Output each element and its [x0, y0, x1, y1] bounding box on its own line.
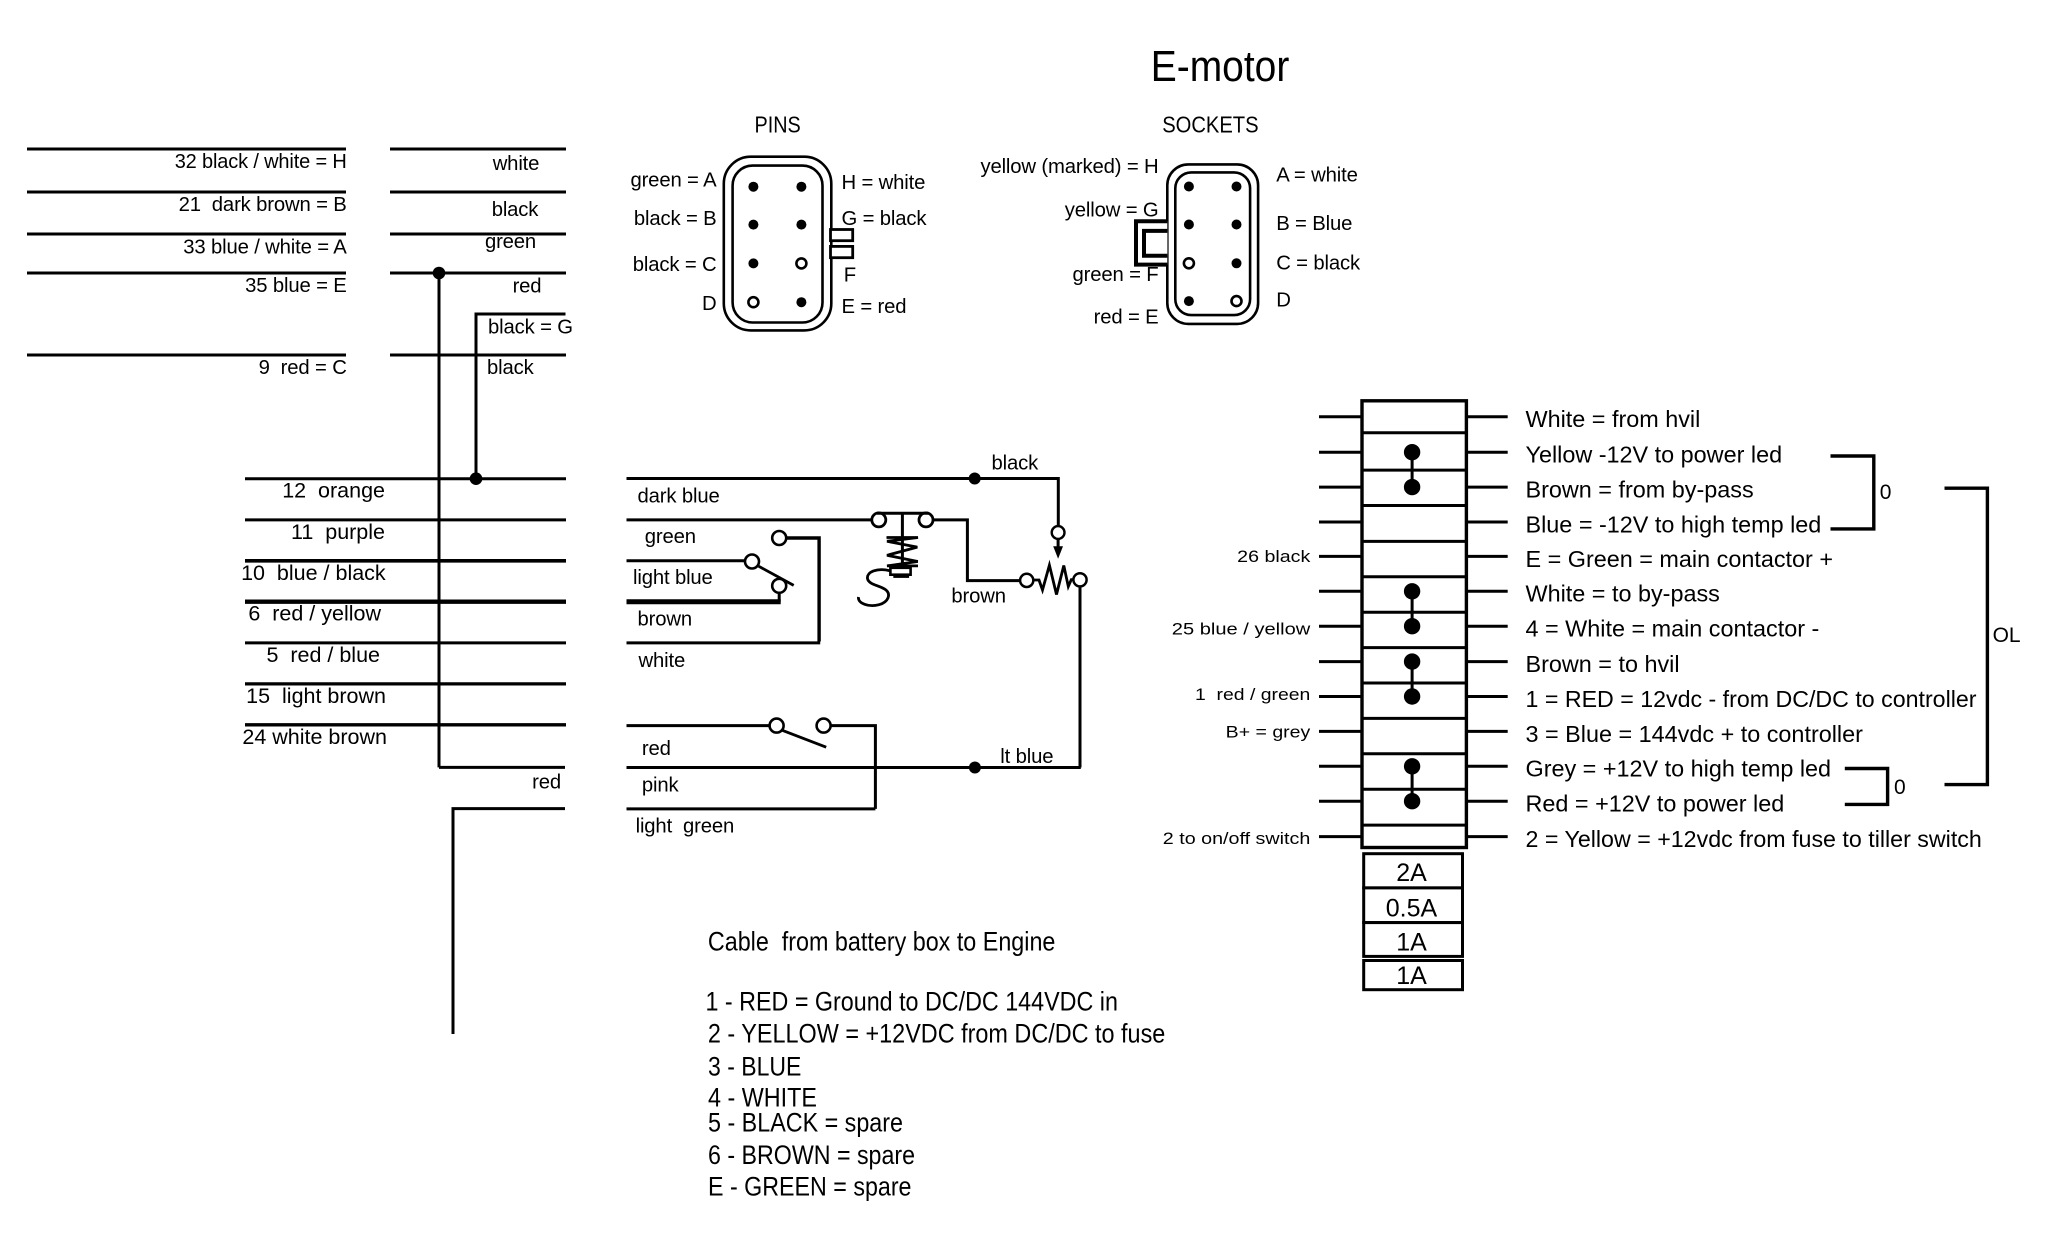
switch S2 lever	[782, 730, 827, 747]
svg-text:PINS: PINS	[755, 112, 801, 138]
svg-text:brown: brown	[638, 608, 693, 630]
jumper dots rows 8-9	[1411, 662, 1414, 697]
svg-text:21 dark brown = B: 21 dark brown = B	[179, 194, 347, 216]
wire left stub row 10	[1319, 730, 1362, 733]
terminal block separator 12	[1362, 824, 1466, 827]
svg-text:black: black	[487, 357, 535, 379]
svg-text:white: white	[638, 650, 686, 672]
wire black = G (elbow)	[476, 314, 566, 479]
wire right stub row 3	[1466, 486, 1507, 489]
svg-text:5 red / blue: 5 red / blue	[266, 643, 380, 667]
wire red (second column)	[390, 272, 566, 275]
pin D (open)	[748, 297, 758, 307]
wire black (second column bottom)	[390, 354, 566, 357]
svg-text:light blue: light blue	[633, 567, 713, 589]
svg-text:White = from hvil: White = from hvil	[1526, 406, 1701, 432]
wire from S2 right terminal to down elbow	[830, 726, 875, 809]
svg-text:1A: 1A	[1396, 929, 1427, 957]
connector J1 PINS outer shell	[724, 157, 832, 331]
overload resistor right terminal circle	[1073, 573, 1086, 586]
svg-text:C = black: C = black	[1276, 252, 1361, 274]
jumper dots rows 2-3	[1411, 452, 1414, 487]
svg-text:Grey = +12V to high temp led: Grey = +12V to high temp led	[1526, 756, 1832, 782]
svg-text:Yellow -12V to power led: Yellow -12V to power led	[1526, 442, 1783, 468]
svg-text:E = Green = main contactor +: E = Green = main contactor +	[1526, 546, 1834, 572]
wire right stub row 13	[1466, 835, 1507, 838]
wire right stub row 11	[1466, 765, 1507, 768]
svg-text:0: 0	[1880, 481, 1892, 504]
bracket 0 (yellow/blue led pair)	[1831, 456, 1874, 529]
svg-text:red: red	[532, 772, 561, 794]
terminal block separator 4	[1362, 540, 1466, 543]
svg-text:11 purple: 11 purple	[291, 520, 385, 544]
svg-text:black = G: black = G	[488, 317, 573, 339]
terminal block separator 8	[1362, 682, 1466, 685]
connector J1 key tab lower	[831, 246, 853, 257]
terminal block separator 9	[1362, 717, 1466, 720]
wire white (middle)	[627, 641, 821, 644]
connector J2 key notch outer	[1136, 221, 1167, 264]
svg-text:B = Blue: B = Blue	[1276, 213, 1352, 235]
svg-text:3 - BLUE: 3 - BLUE	[708, 1051, 801, 1081]
wire 32 black/white = H (left segment)	[27, 148, 346, 151]
svg-text:OL: OL	[1993, 624, 2021, 647]
svg-text:red: red	[513, 276, 542, 298]
svg-text:dark blue: dark blue	[638, 486, 720, 508]
wire right stub row 8	[1466, 660, 1507, 663]
jumper dots rows 11-12	[1411, 766, 1414, 801]
jumper dots rows 6-7	[1411, 591, 1414, 626]
wire red (middle)	[627, 724, 770, 727]
relay armature cup	[890, 568, 910, 575]
wire left stub row 3	[1319, 486, 1362, 489]
wire dark blue / black (top middle)	[627, 479, 1059, 526]
wire light green	[627, 807, 876, 810]
wire black (second column)	[390, 191, 566, 194]
relay contact right circle	[919, 513, 933, 527]
connector J2 key notch inner	[1144, 231, 1167, 256]
terminal block separator 3	[1362, 504, 1466, 507]
svg-text:2 - YELLOW = +12VDC from DC/DC: 2 - YELLOW = +12VDC from DC/DC to fuse	[708, 1019, 1165, 1049]
svg-text:35 blue = E: 35 blue = E	[245, 275, 347, 297]
svg-text:red = E: red = E	[1094, 306, 1159, 328]
bracket 0 (grey/red led pair)	[1845, 769, 1888, 805]
svg-text:Brown = from by-pass: Brown = from by-pass	[1526, 477, 1754, 503]
svg-text:Cable from battery box to Eng: Cable from battery box to Engine	[708, 927, 1056, 957]
socket A (filled)	[1232, 182, 1242, 192]
svg-text:12 orange: 12 orange	[282, 479, 385, 503]
switch S2 right terminal circle	[817, 719, 831, 733]
svg-text:green: green	[645, 526, 696, 548]
wire light blue	[627, 559, 746, 562]
socket F (open)	[1184, 258, 1194, 268]
relay contact left circle	[872, 513, 886, 527]
svg-text:yellow = G: yellow = G	[1065, 200, 1159, 222]
svg-text:black: black	[492, 199, 540, 221]
wire left stub row 6	[1319, 590, 1362, 593]
wire left stub row 12	[1319, 800, 1362, 803]
socket C (filled)	[1232, 258, 1242, 268]
wire vertical from red junction down to red elbow	[438, 273, 441, 767]
svg-text:A = white: A = white	[1276, 164, 1358, 186]
svg-text:Red = +12V to power led: Red = +12V to power led	[1526, 791, 1785, 817]
svg-text:33 blue / white = A: 33 blue / white = A	[183, 237, 347, 259]
svg-text:1 red / green: 1 red / green	[1195, 685, 1310, 704]
pin A (filled)	[748, 182, 758, 192]
wire red elbow horizontal (lower left)	[439, 766, 565, 769]
junction dot on lt blue wire	[969, 762, 981, 774]
wire 5 red/blue	[245, 641, 566, 644]
svg-text:lt blue: lt blue	[1000, 746, 1053, 768]
svg-text:1A: 1A	[1396, 962, 1427, 990]
svg-text:D: D	[702, 293, 717, 315]
terminal block TB1 body	[1362, 401, 1466, 848]
svg-text:white: white	[492, 153, 540, 175]
terminal block separator 11	[1362, 788, 1466, 791]
terminal circle top of overload wiper arm	[1052, 526, 1065, 539]
socket E (filled)	[1184, 296, 1194, 306]
pin B (filled)	[748, 220, 758, 230]
connector J1 PINS inner shell	[733, 166, 823, 323]
fuse 2A cell	[1364, 854, 1463, 888]
svg-text:black: black	[992, 453, 1040, 475]
junction dot where black=G wire meets 12 orange wire	[470, 472, 483, 485]
relay hook	[858, 570, 890, 606]
pin H (filled)	[796, 182, 806, 192]
terminal block separator 10	[1362, 752, 1466, 755]
svg-text:F: F	[844, 264, 856, 286]
svg-text:0: 0	[1894, 776, 1906, 799]
svg-text:E-motor: E-motor	[1151, 42, 1290, 91]
fuse 1A cell	[1364, 923, 1463, 957]
relay coil spring	[887, 538, 919, 566]
svg-text:red: red	[642, 738, 671, 760]
wire 12 orange	[245, 477, 566, 480]
wire right stub row 5	[1466, 555, 1507, 558]
relay actuator stem	[901, 512, 904, 566]
svg-text:25 blue / yellow: 25 blue / yellow	[1172, 619, 1312, 638]
terminal block separator 5	[1362, 575, 1466, 578]
svg-text:6 red / yellow: 6 red / yellow	[248, 602, 381, 626]
wire right stub row 7	[1466, 625, 1507, 628]
junction dot on black wire	[969, 473, 981, 485]
switch S1 upper terminal circle (to white wire)	[772, 531, 786, 545]
socket G (filled)	[1184, 220, 1194, 230]
wire stub from S1 lower terminal to brown wire	[778, 593, 781, 602]
svg-text:green: green	[485, 231, 536, 253]
svg-text:Blue = -12V to high temp led: Blue = -12V to high temp led	[1526, 511, 1822, 537]
svg-text:brown: brown	[951, 586, 1006, 608]
svg-text:SOCKETS: SOCKETS	[1162, 112, 1258, 138]
svg-text:2 to on/off switch: 2 to on/off switch	[1163, 829, 1311, 848]
svg-text:26 black: 26 black	[1237, 547, 1311, 566]
svg-text:9 red = C: 9 red = C	[259, 357, 347, 379]
wire right stub row 9	[1466, 695, 1507, 698]
svg-text:yellow (marked) = H: yellow (marked) = H	[980, 156, 1158, 178]
switch S1 lower terminal circle	[772, 579, 786, 593]
wire white (second column)	[390, 148, 566, 151]
wire right stub row 4	[1466, 521, 1507, 524]
fuse 0.5A cell	[1364, 888, 1463, 923]
svg-text:2A: 2A	[1396, 859, 1427, 887]
wire pink / lt blue	[627, 766, 1081, 769]
wire 24 white brown	[245, 723, 566, 726]
svg-text:4 = White = main contactor -: 4 = White = main contactor -	[1526, 616, 1820, 642]
svg-text:D: D	[1276, 289, 1291, 311]
wire 9 red = C (left segment)	[27, 354, 346, 357]
overload resistor left terminal circle	[1020, 574, 1033, 587]
wire brown (middle, thick)	[627, 599, 781, 604]
svg-text:32 black / white = H: 32 black / white = H	[175, 151, 347, 173]
wire left stub row 1	[1319, 415, 1362, 418]
fuse 1A cell	[1364, 961, 1463, 990]
svg-text:White = to by-pass: White = to by-pass	[1526, 581, 1720, 607]
junction dot on red wire	[433, 267, 446, 280]
wire 21 dark brown = B (left segment)	[27, 191, 346, 194]
connector J2 SOCKETS outer shell	[1167, 164, 1258, 324]
svg-text:H = white: H = white	[842, 172, 926, 194]
wire 33 blue/white = A (left segment)	[27, 233, 346, 236]
wire left stub row 7	[1319, 625, 1362, 628]
pin F (open)	[796, 258, 806, 268]
wire left stub row 8	[1319, 660, 1362, 663]
wire right stub row 2	[1466, 451, 1507, 454]
terminal block separator 6	[1362, 611, 1466, 614]
svg-text:24 white brown: 24 white brown	[242, 725, 387, 749]
wire 6 red/yellow	[245, 600, 566, 604]
wire left stub row 11	[1319, 765, 1362, 768]
wire green (middle)	[627, 518, 872, 521]
wire right stub row 12	[1466, 800, 1507, 803]
svg-text:Brown = to hvil: Brown = to hvil	[1526, 651, 1680, 677]
svg-text:10 blue / black: 10 blue / black	[241, 561, 386, 585]
pin C (filled)	[748, 258, 758, 268]
overload resistor zigzag body	[1033, 565, 1073, 594]
wire left stub row 13	[1319, 835, 1362, 838]
svg-text:6 - BROWN = spare: 6 - BROWN = spare	[708, 1140, 915, 1170]
wire green (second column)	[390, 233, 566, 236]
arrow (wiper) pointing down at resistor	[1057, 540, 1060, 548]
svg-text:pink: pink	[642, 775, 680, 797]
svg-text:0.5A: 0.5A	[1386, 894, 1438, 922]
svg-text:2 = Yellow = +12vdc from fuse: 2 = Yellow = +12vdc from fuse to tiller …	[1526, 826, 1982, 852]
switch S2 left terminal circle	[770, 719, 784, 733]
svg-text:1 - RED = Ground to DC/DC 144V: 1 - RED = Ground to DC/DC 144VDC in	[706, 986, 1118, 1016]
wire lower-left elbow down to battery cable	[453, 809, 565, 1034]
svg-text:5 - BLACK = spare: 5 - BLACK = spare	[708, 1108, 903, 1138]
svg-text:green = A: green = A	[630, 169, 717, 191]
svg-text:light green: light green	[636, 816, 735, 838]
connector J1 key tab upper	[831, 230, 853, 241]
relay contact bar	[877, 512, 929, 515]
pin G (filled)	[796, 220, 806, 230]
connector J2 SOCKETS inner shell	[1175, 172, 1250, 315]
wire right stub row 6	[1466, 590, 1507, 593]
svg-text:E - GREEN = spare: E - GREEN = spare	[708, 1172, 912, 1202]
pin E (filled)	[796, 297, 806, 307]
svg-text:G = black: G = black	[842, 208, 928, 230]
terminal block separator 2	[1362, 469, 1466, 472]
socket D (open)	[1232, 296, 1242, 306]
switch S1 terminal circle (light blue)	[745, 555, 759, 569]
wire from resistor right terminal down to lt blue wire	[1079, 586, 1082, 767]
switch S1 lever	[759, 566, 794, 585]
wire 10 blue/black	[245, 559, 566, 563]
wire 11 purple	[245, 518, 566, 521]
svg-text:15 light brown: 15 light brown	[246, 684, 386, 708]
terminal block separator 7	[1362, 646, 1466, 649]
svg-text:green = F: green = F	[1072, 264, 1158, 286]
svg-text:3 = Blue = 144vdc + to control: 3 = Blue = 144vdc + to controller	[1526, 721, 1864, 747]
svg-text:1 = RED = 12vdc - from DC/DC t: 1 = RED = 12vdc - from DC/DC to controll…	[1526, 686, 1977, 712]
wire left stub row 4	[1319, 521, 1362, 524]
svg-text:B+ = grey: B+ = grey	[1226, 722, 1311, 741]
wire right stub row 1	[1466, 415, 1507, 418]
wire left stub row 5	[1319, 555, 1362, 558]
terminal block separator 1	[1362, 431, 1466, 434]
wire right stub row 10	[1466, 730, 1507, 733]
svg-text:black = C: black = C	[633, 254, 717, 276]
socket H (filled)	[1184, 182, 1194, 192]
wire from S1 upper terminal to white wire	[786, 538, 819, 642]
wire brown jog from relay to resistor	[933, 520, 1020, 581]
bracket OL	[1945, 488, 1988, 784]
wire 35 blue = E (left segment)	[27, 272, 346, 275]
svg-text:E = red: E = red	[842, 296, 907, 318]
svg-text:black = B: black = B	[634, 208, 717, 230]
wire left stub row 9	[1319, 695, 1362, 698]
socket B (filled)	[1232, 220, 1242, 230]
wire left stub row 2	[1319, 451, 1362, 454]
wire 15 light brown	[245, 682, 566, 685]
